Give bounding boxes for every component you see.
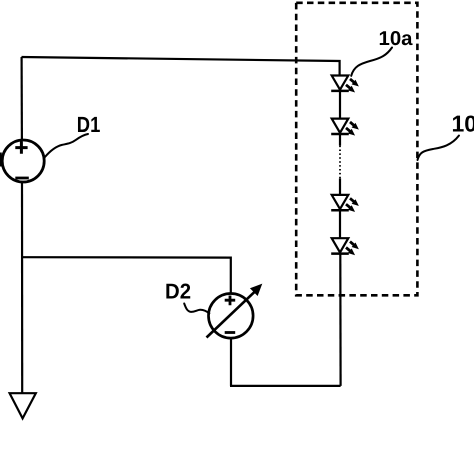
svg-text:D2: D2 <box>165 279 191 303</box>
svg-text:10a: 10a <box>379 28 414 50</box>
leader line to LED1 <box>351 48 392 76</box>
LED 1 <box>331 76 358 92</box>
wire: D1 bottom to ground <box>21 183 23 393</box>
scan mark at left edge <box>0 153 2 167</box>
wire: D2 bottom down <box>230 337 232 386</box>
wire: LED2 to dotted section <box>339 134 341 145</box>
wire: branch from left rail to D2 top <box>22 257 231 293</box>
LED 2 <box>331 119 358 135</box>
wire: bottom horizontal <box>230 385 341 387</box>
enclosure 10: dashed box <box>296 3 417 296</box>
leader line to box edge <box>418 136 460 161</box>
source D2 (adjustable) <box>209 294 254 339</box>
wire: dotted section to LED3 <box>339 178 341 194</box>
arrow across D2 <box>207 292 256 338</box>
wire: left vertical from top rail to D1 top <box>21 57 23 140</box>
LED 3 <box>331 195 358 211</box>
svg-text:10: 10 <box>452 111 474 137</box>
wire: LED1 to LED2 <box>339 91 341 118</box>
wire: riser from bottom wire up to LED4 <box>339 254 342 386</box>
wire: top rail from D1 node to LED string entry <box>22 57 340 76</box>
dotted continuation line <box>339 146 341 179</box>
voltage source D1 <box>2 140 44 182</box>
leader line to D2 <box>184 304 209 314</box>
LED 4 <box>331 238 358 254</box>
wire: LED3 to LED4 <box>339 211 341 238</box>
ground <box>10 393 36 418</box>
leader line to D1 <box>45 134 89 158</box>
